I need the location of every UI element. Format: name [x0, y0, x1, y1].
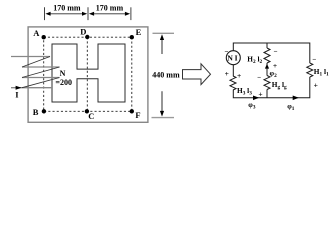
- svg-text:+: +: [237, 71, 241, 80]
- svg-text:D: D: [80, 26, 86, 36]
- svg-text:−: −: [312, 56, 316, 64]
- svg-text:E: E: [136, 27, 142, 37]
- svg-text:−: −: [274, 47, 278, 55]
- svg-text:NI: NI: [227, 53, 239, 62]
- svg-text:+: +: [258, 89, 262, 98]
- svg-text:+: +: [314, 81, 318, 90]
- svg-text:C: C: [88, 111, 94, 121]
- svg-text:F: F: [135, 110, 140, 120]
- svg-text:B: B: [33, 107, 39, 117]
- svg-text:170 mm: 170 mm: [53, 4, 81, 13]
- svg-text:+: +: [225, 69, 229, 78]
- svg-text:=200: =200: [55, 78, 72, 87]
- svg-text:+: +: [273, 61, 277, 70]
- svg-text:N: N: [60, 69, 66, 78]
- svg-text:A: A: [33, 28, 40, 38]
- svg-text:−: −: [225, 48, 229, 56]
- svg-text:440 mm: 440 mm: [152, 71, 180, 80]
- svg-text:−: −: [257, 74, 261, 82]
- svg-text:170 mm: 170 mm: [96, 4, 124, 13]
